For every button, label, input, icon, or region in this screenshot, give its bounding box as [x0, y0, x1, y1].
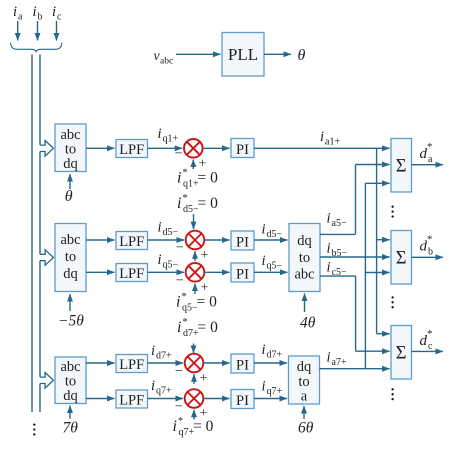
wire PLL to theta	[264, 53, 291, 55]
svg-text:i: i	[327, 260, 331, 276]
wire sum c out	[412, 350, 444, 352]
sign plus mult1	[199, 157, 207, 172]
label ref i*_d5- = 0	[177, 193, 218, 215]
block sum a	[391, 139, 412, 193]
block LPF 2a	[116, 232, 148, 251]
svg-text:a7+: a7+	[332, 357, 347, 368]
label i_q1+	[158, 126, 179, 145]
svg-text:d5−: d5−	[163, 227, 179, 238]
svg-text:LPF: LPF	[119, 393, 144, 409]
chevron into abc-to-dq 2	[40, 250, 53, 266]
multiplier d5-	[186, 231, 205, 250]
wire abc-dq2 to LPF2a	[86, 239, 115, 241]
svg-text:dq: dq	[63, 266, 78, 282]
svg-text:i: i	[262, 379, 266, 395]
sign minus mult q7	[175, 399, 183, 414]
wire i_a5- to sum a	[320, 165, 390, 235]
svg-text:−: −	[176, 240, 184, 255]
svg-text:θ: θ	[65, 188, 73, 205]
svg-text:to: to	[299, 250, 310, 266]
svg-text:Σ: Σ	[396, 343, 407, 363]
wire 4theta arrow	[304, 294, 306, 313]
svg-text:i: i	[173, 418, 177, 435]
svg-text:a: a	[18, 12, 23, 23]
input label i_b	[33, 4, 43, 23]
wire PI3b to dq-a	[254, 398, 287, 400]
label i_c5-	[327, 260, 347, 279]
svg-text:*: *	[178, 416, 183, 427]
label v_abc	[154, 49, 174, 67]
svg-text:i: i	[158, 220, 162, 236]
svg-text:i: i	[177, 195, 181, 212]
wire mult q5 to PI2b	[204, 271, 229, 273]
wire ref stub into mult1	[192, 160, 194, 170]
chevron into abc-to-dq 1	[40, 141, 53, 157]
dots below sum b	[391, 296, 393, 308]
wire i_a1+ to sum a	[254, 147, 390, 149]
block PI 2b	[231, 263, 254, 283]
label 4theta	[300, 315, 316, 332]
wire ref stub into mult q5	[194, 284, 196, 295]
input label i_a	[13, 4, 23, 23]
svg-text:d7+: d7+	[156, 351, 172, 362]
wire ref d5- down arrow	[193, 214, 195, 229]
block PI 3a	[231, 354, 254, 374]
block dq-to-abc	[289, 224, 320, 292]
svg-text:LPF: LPF	[119, 142, 144, 158]
wire i_c5- to sum c	[320, 276, 390, 351]
svg-text:−5θ: −5θ	[58, 313, 84, 330]
svg-text:dq: dq	[297, 359, 312, 375]
chevron into abc-to-dq 3	[40, 373, 53, 389]
wire abc-dq3 to LPF3b	[86, 398, 115, 400]
svg-text:a5−: a5−	[332, 218, 347, 229]
svg-text:c: c	[57, 12, 62, 23]
svg-text:+: +	[200, 371, 208, 386]
wire PI3a to dq-a	[254, 362, 287, 364]
svg-text:i: i	[158, 126, 162, 142]
svg-text:i: i	[320, 129, 324, 145]
block LPF 2b	[116, 264, 148, 283]
svg-text:i: i	[262, 342, 266, 358]
wire LPF3a to mult d7	[148, 362, 184, 364]
svg-text:*: *	[427, 141, 433, 153]
block PI 3b	[231, 390, 254, 410]
svg-text:PI: PI	[236, 142, 249, 158]
multiplier d7+	[185, 354, 204, 373]
svg-text:i: i	[262, 253, 266, 269]
label 6theta	[298, 420, 314, 437]
svg-text:c: c	[428, 341, 433, 352]
wire LPF3b to mult q7	[148, 398, 184, 400]
svg-text:i: i	[13, 4, 17, 20]
svg-text:*: *	[182, 168, 187, 179]
svg-text:*: *	[427, 234, 433, 246]
label i_d7+ b	[262, 342, 283, 361]
label i_q5- a	[158, 252, 179, 271]
svg-text:*: *	[182, 317, 187, 328]
wire arrow from i_b	[37, 21, 39, 41]
wire ref stub into mult q7	[193, 410, 195, 420]
wire ref d7+ down arrow	[193, 344, 195, 354]
svg-text:PI: PI	[236, 235, 249, 251]
svg-text:i: i	[327, 241, 331, 257]
svg-text:i: i	[177, 170, 181, 187]
wire sum b out	[412, 256, 444, 258]
label i_a5-	[327, 211, 347, 230]
svg-text:b: b	[38, 12, 43, 23]
label theta out	[298, 47, 306, 64]
wire 6theta arrow	[303, 406, 305, 419]
wire sum a out	[412, 164, 444, 166]
svg-text:i: i	[158, 252, 162, 268]
svg-text:i: i	[33, 4, 37, 20]
sign minus mult q5	[176, 274, 184, 289]
svg-text:i: i	[327, 350, 331, 366]
bus wire right	[39, 55, 41, 413]
svg-text:a1+: a1+	[325, 137, 340, 148]
wire abc-dq3 to LPF3a	[86, 362, 115, 364]
block abc-to-dq 1	[55, 124, 86, 172]
block LPF 3a	[116, 355, 148, 374]
svg-text:= 0: = 0	[198, 319, 219, 336]
wire v_abc to PLL	[176, 53, 221, 55]
svg-text:−: −	[176, 274, 184, 289]
dots below sum c	[391, 388, 393, 400]
wire i_a1+ down branch	[377, 148, 390, 333]
multiplier q5-	[186, 263, 205, 282]
wire 7theta arrow	[69, 406, 71, 419]
svg-text:a: a	[428, 154, 433, 165]
block PI 2a	[231, 231, 254, 251]
svg-text:6θ: 6θ	[298, 420, 314, 437]
svg-text:q7+: q7+	[267, 386, 283, 397]
svg-text:to: to	[65, 249, 76, 265]
label i_a7+	[327, 350, 347, 369]
wire abc-dq1 to LPF1	[86, 147, 115, 149]
svg-text:= 0: = 0	[197, 294, 218, 311]
svg-text:+: +	[201, 248, 209, 263]
wire theta1 arrow	[69, 174, 71, 189]
svg-text:q1+: q1+	[163, 134, 179, 145]
svg-text:Σ: Σ	[396, 156, 407, 176]
wire PI2b to dq-abc	[254, 271, 288, 273]
svg-text:7θ: 7θ	[63, 420, 79, 437]
svg-text:abc: abc	[60, 232, 80, 248]
wire i_a7+ up to sum a	[365, 183, 389, 368]
sign plus mult d7	[200, 371, 208, 386]
svg-text:PI: PI	[236, 358, 249, 374]
svg-text:dq: dq	[63, 156, 78, 172]
sign plus mult d5	[201, 248, 209, 263]
multiplier q7+	[185, 389, 204, 408]
brace grouping ia ib ic	[11, 43, 62, 52]
label ref i*_q1+ = 0	[177, 168, 218, 190]
label d*_b	[420, 234, 434, 258]
svg-text:i: i	[327, 211, 331, 227]
svg-text:a: a	[301, 389, 308, 405]
dots below sum a	[391, 206, 393, 218]
svg-text:i: i	[262, 222, 266, 238]
wire arrow from i_a	[17, 21, 19, 41]
wire mult d7 to PI3a	[203, 362, 229, 364]
svg-text:θ: θ	[298, 47, 306, 64]
wire -5theta arrow	[69, 294, 71, 311]
wire ref stub into mult d5	[194, 251, 196, 261]
svg-text:i: i	[151, 378, 155, 394]
label 7theta	[63, 420, 79, 437]
svg-text:b: b	[428, 247, 433, 258]
label i_q5- b	[262, 253, 283, 272]
svg-text:dq: dq	[297, 233, 312, 249]
svg-text:q5−: q5−	[163, 260, 179, 271]
label i_b5-	[327, 241, 348, 260]
svg-text:−: −	[175, 147, 183, 162]
svg-text:*: *	[182, 193, 187, 204]
wire arrow from i_c	[56, 21, 58, 41]
wire mult q7 to PI3b	[203, 398, 229, 400]
label ref i*_d7+ = 0	[177, 317, 218, 339]
svg-text:*: *	[181, 292, 186, 303]
wire LPF2b to mult q5	[148, 271, 185, 273]
wire LPF2a to mult d5	[148, 239, 185, 241]
wire mult1 to PI1	[203, 147, 230, 149]
block PI 1	[231, 139, 254, 159]
svg-text:PI: PI	[236, 393, 249, 409]
block PLL	[222, 33, 264, 77]
label i_d7+ a	[151, 343, 172, 362]
svg-text:*: *	[427, 328, 433, 340]
multiplier q1+	[184, 139, 203, 158]
svg-text:4θ: 4θ	[300, 315, 316, 332]
svg-text:LPF: LPF	[119, 234, 144, 250]
svg-text:abc: abc	[294, 267, 314, 283]
svg-text:= 0: = 0	[198, 195, 219, 212]
label d*_c	[420, 328, 434, 352]
svg-text:Σ: Σ	[396, 248, 407, 268]
svg-text:d7+: d7+	[267, 350, 283, 361]
svg-text:= 0: = 0	[193, 418, 214, 435]
sign plus mult q7	[200, 406, 208, 421]
label -5theta	[58, 313, 84, 330]
label i_a1+	[320, 129, 340, 148]
label i_d5- a	[158, 220, 179, 239]
svg-text:PI: PI	[236, 267, 249, 283]
svg-text:d5−: d5−	[267, 229, 283, 240]
sign minus mult d5	[176, 240, 184, 255]
wire mult d5 to PI2a	[204, 239, 229, 241]
wire branch to sum b in3	[365, 272, 389, 274]
label i_q7+ a	[151, 378, 172, 397]
dots below bus	[33, 423, 35, 435]
wire branch to sum b in1	[377, 239, 390, 241]
block sum c	[391, 326, 412, 380]
svg-text:PLL: PLL	[228, 45, 258, 64]
wire PI2a to dq-abc	[254, 239, 288, 241]
wire LPF1 to mult1	[148, 147, 183, 149]
svg-text:dq: dq	[63, 388, 78, 404]
label i_d5- b	[262, 222, 283, 241]
svg-text:−: −	[175, 364, 183, 379]
svg-text:i: i	[176, 294, 180, 311]
svg-text:abc: abc	[160, 57, 173, 67]
svg-text:q7+: q7+	[156, 386, 172, 397]
block abc-to-dq 3	[55, 357, 86, 404]
svg-text:LPF: LPF	[119, 266, 144, 282]
svg-text:i: i	[151, 343, 155, 359]
label theta1	[65, 188, 73, 205]
bus wire left	[31, 55, 33, 413]
wire i_a7+ to sum c	[320, 368, 390, 370]
wire i_b5- to sum b	[320, 256, 390, 258]
block LPF 1	[116, 140, 148, 159]
block sum b	[391, 231, 412, 285]
block dq-to-a	[289, 356, 320, 405]
block LPF 3b	[116, 390, 148, 409]
block abc-to-dq 2	[55, 224, 86, 292]
wire abc-dq2 to LPF2b	[86, 271, 115, 273]
label ref i*_q5- = 0	[176, 292, 217, 314]
svg-text:i: i	[177, 319, 181, 336]
svg-text:q5−: q5−	[267, 261, 283, 272]
svg-text:i: i	[52, 4, 56, 20]
wire ref stub into mult d7	[193, 374, 195, 384]
label d*_a	[420, 141, 434, 165]
svg-text:= 0: = 0	[198, 170, 219, 187]
label i_q7+ b	[262, 379, 283, 398]
label ref i*_q7+ = 0	[173, 416, 214, 438]
input label i_c	[52, 4, 62, 23]
sign plus mult q5	[201, 281, 209, 296]
sign minus mult1	[175, 147, 183, 162]
sign minus mult d7	[175, 364, 183, 379]
svg-text:−: −	[175, 399, 183, 414]
svg-text:LPF: LPF	[119, 357, 144, 373]
